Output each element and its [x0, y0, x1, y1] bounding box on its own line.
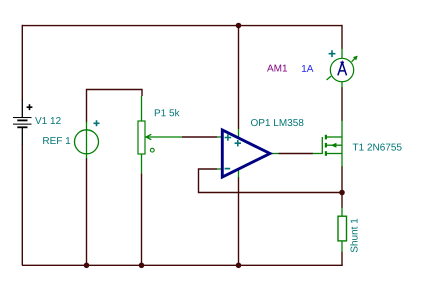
shunt resistor body	[338, 216, 347, 241]
battery V1 top lead	[21, 100, 23, 118]
wire op-amp output to mosfet gate	[279, 153, 314, 155]
mosfet T1 gate bar	[321, 137, 323, 154]
ammeter AM1 arrow upper segment with head	[352, 56, 357, 61]
node junction dot feedback/source/shunt	[339, 190, 345, 196]
wire op-amp - input feedback	[199, 169, 343, 193]
wire ammeter to mosfet drain	[341, 87, 343, 121]
label Shunt 1	[350, 219, 357, 253]
label P1 5k	[155, 109, 180, 116]
wire shunt to bottom rail	[341, 252, 343, 266]
node junction dot pot bottom	[139, 263, 145, 269]
label REF 1	[43, 137, 70, 144]
mosfet T1 source lead	[341, 154, 343, 167]
mosfet T1 channel-side vertical	[341, 137, 343, 154]
mosfet T1 drain stub	[327, 136, 342, 138]
potentiometer P1 body	[138, 121, 145, 154]
potentiometer P1 wiper arrow	[146, 134, 182, 139]
mosfet T1 channel ticks	[325, 135, 327, 140]
ammeter A letter	[338, 62, 346, 74]
node junction dot top rail	[236, 23, 242, 29]
ammeter AM1 bottom lead	[341, 82, 343, 88]
label OP1 LM358	[251, 119, 303, 126]
ammeter AM1 plus sign	[329, 50, 336, 57]
shunt resistor top lead	[341, 208, 343, 217]
label AM1	[267, 65, 287, 72]
op-amp OP1 + input stub	[217, 136, 223, 138]
potentiometer P1 top lead	[141, 96, 143, 121]
ammeter AM1 top lead	[341, 49, 343, 59]
wire REF1 bottom to bottom rail	[86, 158, 88, 265]
battery V1 bottom lead	[21, 128, 23, 145]
wire mosfet source to feedback junction	[341, 166, 343, 193]
label V1 12	[35, 117, 61, 124]
op-amp V+ supply plus sign	[235, 140, 241, 146]
ammeter AM1 arrow lower segment	[327, 76, 332, 80]
potentiometer P1 bottom lead	[141, 154, 143, 173]
wire junction to shunt	[341, 193, 343, 209]
voltage reference REF1 lead	[86, 122, 88, 159]
wire left rail upper	[21, 25, 23, 100]
op-amp OP1 V+ pin stub	[238, 129, 240, 139]
potentiometer P1 wiper pin circle	[150, 148, 154, 152]
op-amp plus input sign	[225, 134, 232, 141]
wire op-amp V+ supply branch	[238, 26, 240, 130]
wire op-amp V- supply branch	[238, 177, 240, 265]
wire left rail lower	[21, 145, 23, 266]
mosfet T1 body stub with arrow	[327, 144, 342, 146]
shunt resistor bottom lead	[341, 241, 343, 252]
op-amp OP1 triangle	[222, 130, 270, 177]
label 1A	[302, 65, 313, 72]
node junction dot op-amp V- bottom	[236, 263, 242, 269]
battery V1 plus sign	[27, 104, 33, 110]
mosfet T1 drain lead	[341, 121, 343, 138]
wire right rail top (to ammeter)	[341, 25, 343, 49]
mosfet T1 gate lead	[313, 153, 323, 155]
op-amp OP1 - input stub	[217, 168, 223, 170]
wire pot bottom to bottom rail	[141, 173, 143, 265]
ammeter AM1 circle	[330, 58, 353, 81]
battery V1 plates	[13, 117, 32, 118]
wire bottom rail	[22, 264, 343, 266]
wire pot wiper to op-amp + input	[182, 136, 217, 138]
wire top rail	[22, 25, 342, 27]
wire REF1 top to pot top	[87, 90, 143, 123]
REF1 plus sign	[94, 120, 100, 126]
voltage reference REF1 circle	[75, 130, 99, 154]
op-amp OP1 output stub	[270, 153, 279, 155]
node junction dot REF1 bottom	[84, 263, 90, 269]
mosfet T1 source stub	[327, 153, 342, 155]
label T1 2N6755	[353, 144, 402, 151]
op-amp minus input sign	[225, 168, 231, 170]
op-amp OP1 V- pin stub	[238, 169, 240, 178]
